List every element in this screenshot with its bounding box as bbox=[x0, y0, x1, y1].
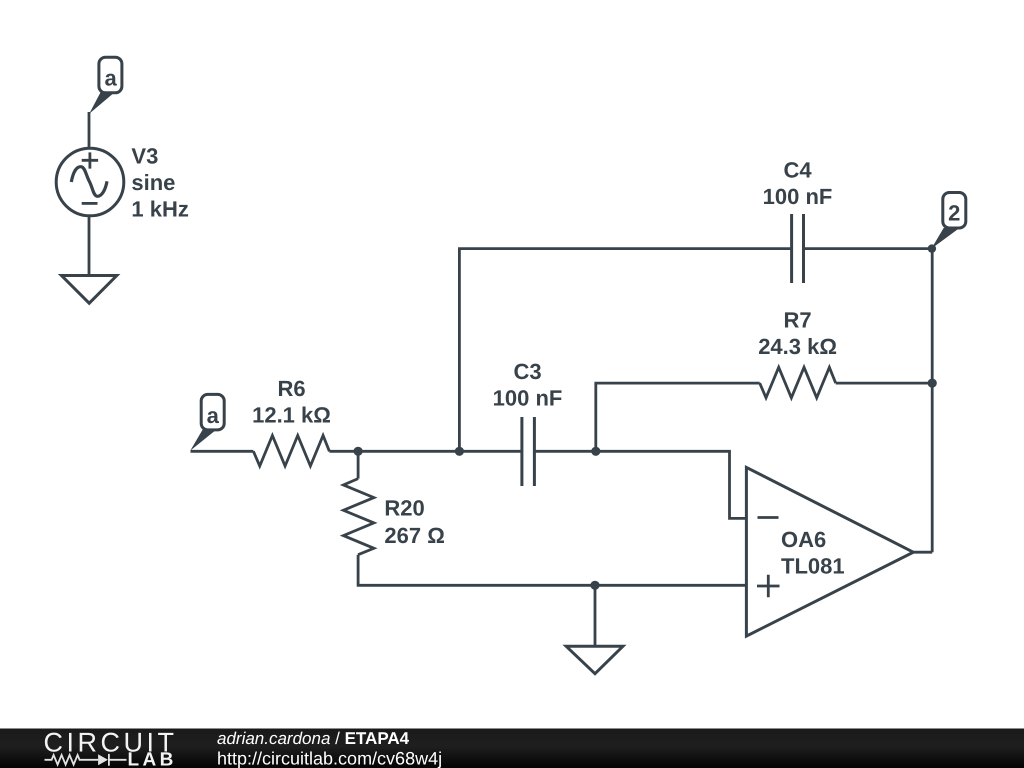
label OA6 TL081 bbox=[781, 527, 845, 579]
footer bar bbox=[0, 728, 1024, 768]
junction R7/right rail bbox=[928, 379, 937, 388]
svg-text:a: a bbox=[104, 66, 117, 91]
svg-text:267 Ω: 267 Ω bbox=[384, 523, 444, 548]
wire inv node to op-amp minus input bbox=[596, 451, 747, 518]
junction node 2 corner bbox=[928, 244, 936, 252]
node a flag (left of R6) bbox=[190, 394, 224, 450]
wire C3 node to main bbox=[459, 450, 522, 453]
svg-text:V3: V3 bbox=[131, 144, 158, 169]
op-amp output wire bbox=[913, 551, 932, 554]
junction node R6/R20 bbox=[354, 447, 363, 456]
ground (under op-amp plus rail) bbox=[566, 646, 623, 673]
svg-text:OA6: OA6 bbox=[781, 527, 826, 552]
svg-text:TL081: TL081 bbox=[781, 554, 845, 579]
capacitor C4 bbox=[792, 214, 804, 283]
wire flag-a to V3 bbox=[88, 112, 91, 148]
label C3 100 nF bbox=[493, 359, 563, 410]
svg-text:C4: C4 bbox=[783, 158, 812, 183]
ground (under V3) bbox=[62, 276, 117, 304]
svg-text:LAB: LAB bbox=[128, 750, 177, 768]
label V3 sine 1 kHz bbox=[131, 144, 188, 222]
svg-text:sine: sine bbox=[131, 170, 175, 195]
svg-text:R7: R7 bbox=[784, 308, 812, 333]
right rail wire bbox=[931, 249, 934, 553]
resistor R20 bbox=[343, 479, 374, 555]
label C4 100 nF bbox=[763, 158, 833, 210]
svg-text:24.3 kΩ: 24.3 kΩ bbox=[758, 334, 837, 359]
wire node to R20 bbox=[357, 451, 360, 478]
node a flag (top) bbox=[89, 57, 122, 114]
svg-text:12.1 kΩ: 12.1 kΩ bbox=[252, 403, 331, 428]
wire inv node up to R7 bbox=[596, 383, 760, 451]
label R7 24.3 k bbox=[758, 308, 837, 360]
svg-text:http://circuitlab.com/cv68w4j: http://circuitlab.com/cv68w4j bbox=[217, 749, 442, 768]
wire V3 to ground bbox=[88, 216, 91, 275]
label R20 267 ohm bbox=[384, 496, 444, 548]
capacitor C3 bbox=[522, 417, 535, 486]
svg-text:C3: C3 bbox=[513, 359, 541, 384]
svg-text:a: a bbox=[207, 403, 220, 428]
svg-text:adrian.cardona / ETAPA4: adrian.cardona / ETAPA4 bbox=[217, 729, 410, 748]
op-amp plus symbol bbox=[757, 575, 780, 598]
resistor R7 bbox=[760, 367, 836, 398]
op-amp OA6 triangle bbox=[746, 467, 913, 636]
svg-text:100 nF: 100 nF bbox=[493, 385, 563, 410]
svg-text:1 kHz: 1 kHz bbox=[131, 197, 188, 222]
wire main node to C4 branch node bbox=[358, 450, 459, 453]
wire R7 to right rail bbox=[836, 382, 933, 385]
resistor R6 bbox=[253, 436, 329, 467]
op-amp minus symbol bbox=[758, 516, 779, 519]
wire C3 to inv node bbox=[534, 450, 595, 453]
svg-text:2: 2 bbox=[948, 201, 960, 226]
junction plus/ground node bbox=[590, 581, 599, 590]
wire C4 to node 2 corner bbox=[804, 247, 932, 250]
wire up to C4 rail bbox=[459, 249, 791, 452]
svg-text:R6: R6 bbox=[277, 376, 305, 401]
node 2 flag bbox=[931, 193, 966, 249]
voltage source V3 bbox=[56, 148, 124, 216]
svg-text:R20: R20 bbox=[384, 496, 424, 521]
wire down to ground 2 bbox=[594, 585, 597, 646]
wire R20 to bottom rail bbox=[358, 555, 746, 586]
wire flag-a to R6 bbox=[191, 450, 254, 453]
label R6 12.1 k bbox=[252, 376, 331, 428]
CircuitLab logo resistor-diode symbol bbox=[45, 754, 127, 766]
junction inverting node bbox=[591, 447, 600, 456]
wire R6 to node bbox=[329, 450, 358, 453]
junction node C4 branch bbox=[455, 447, 464, 456]
svg-text:100 nF: 100 nF bbox=[763, 184, 833, 209]
